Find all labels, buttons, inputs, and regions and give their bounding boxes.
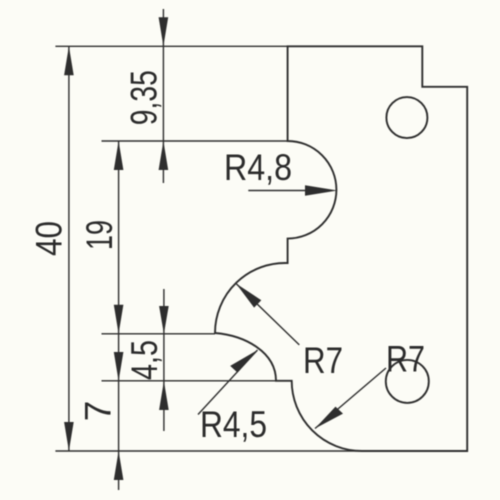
svg-text:40: 40 <box>29 221 70 256</box>
svg-text:R4,5: R4,5 <box>200 404 267 445</box>
dim 9,35 arrow top (outside) <box>159 17 169 46</box>
svg-text:R7: R7 <box>386 339 425 380</box>
leader R4,8 <box>248 190 330 192</box>
leader R4,5 <box>198 350 258 415</box>
dim 19 arrow bottom <box>114 305 124 334</box>
dim 9,35 arrow bottom (outside) <box>159 141 169 170</box>
leader R7 lower <box>315 368 386 429</box>
leader R7 lower arrow <box>315 407 343 429</box>
dim 4,5 arrow bottom (outside) <box>159 381 169 410</box>
extension line y=380.8 <box>102 380 292 382</box>
leader R4,5 arrow <box>230 350 257 373</box>
svg-text:4,5: 4,5 <box>124 340 165 380</box>
svg-text:9,35: 9,35 <box>124 70 165 125</box>
dim 40 arrow bottom <box>64 422 74 451</box>
svg-text:19: 19 <box>79 220 120 250</box>
leader R4,8 arrow <box>305 185 338 195</box>
extension line waist (y=333) <box>102 333 216 335</box>
dimension line 9,35 <box>162 9 164 183</box>
extension line bottom (y=450.6) <box>55 450 363 452</box>
leader R7 upper arrow <box>236 284 261 308</box>
hole circle bottom <box>386 360 429 403</box>
dimension line 19 + 7 upper tail <box>118 141 120 490</box>
extension line top (y=46) <box>55 45 287 47</box>
extension line shoulder (y=141) <box>102 140 288 142</box>
dimension line 4,5 <box>163 289 165 431</box>
dim 7 arrow bottom (outside) <box>114 451 124 480</box>
hole circle top <box>386 97 427 138</box>
dim 7 arrow top (outside) <box>114 352 124 381</box>
dim 40 arrow top <box>64 46 74 75</box>
dim 19 arrow top <box>114 141 124 170</box>
leader R7 upper <box>236 284 299 345</box>
dim 4,5 arrow top (outside) <box>159 306 169 334</box>
svg-text:R7: R7 <box>303 340 343 381</box>
svg-text:R4,8: R4,8 <box>224 147 292 188</box>
part outline (profile knife blank) <box>215 46 467 451</box>
svg-text:7: 7 <box>78 401 119 422</box>
dimension line 40 <box>68 46 70 451</box>
